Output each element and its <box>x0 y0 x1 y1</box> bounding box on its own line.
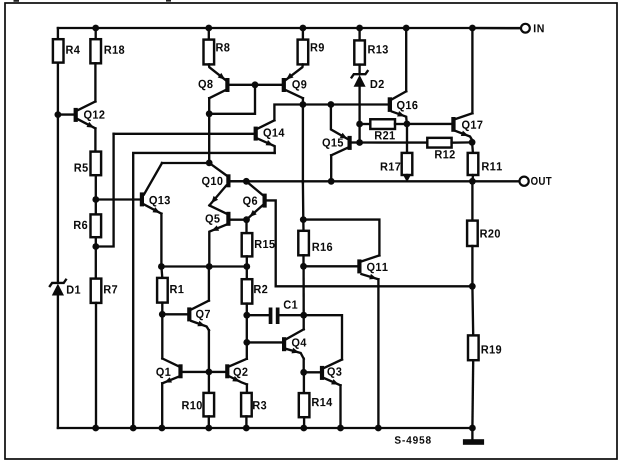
wire output sense rail (OUT) <box>231 180 520 182</box>
node ground rail end <box>469 425 476 432</box>
node Q2 collector / Q4 base <box>243 339 250 346</box>
wire Q7 emitter to Q1/Q2 base node <box>208 330 210 372</box>
resistor R4 <box>53 39 64 62</box>
transistor Q11 <box>357 259 361 273</box>
node Q12 base junction <box>55 111 62 118</box>
resistor R7 <box>91 279 102 303</box>
node ground rail R14 <box>300 425 307 432</box>
resistor R6 <box>91 214 102 237</box>
wire Q13 emitter drop to bias bus <box>160 214 162 267</box>
node ground rail R7 <box>92 425 99 432</box>
wire bias bus <box>161 265 246 267</box>
transistor Q9 (pnp) <box>282 78 286 92</box>
wire Q8 collector drop <box>208 98 210 163</box>
node mirror node <box>206 110 213 117</box>
node top rail R8 tap <box>205 25 212 32</box>
node top rail R9 tap <box>300 25 307 32</box>
transistor Q17 <box>451 117 455 132</box>
node R5/R6 divider tap <box>92 196 99 203</box>
resistor R20 <box>471 181 473 220</box>
resistor R3 <box>241 393 252 417</box>
transistor Q14 <box>254 127 258 141</box>
resistor R2 <box>246 267 248 280</box>
wire R4/D1 left column <box>57 28 59 283</box>
resistor R21 <box>360 123 371 125</box>
transistor Q13 <box>140 192 144 206</box>
wire Q9 collector node to Q16 base <box>303 103 388 105</box>
node Q11 collector / R16 top <box>300 216 307 223</box>
node ground rail R10 <box>205 425 212 432</box>
node Q15 base node <box>356 139 363 146</box>
node bias bus R15/R2 tap <box>243 263 250 270</box>
schematic id S-4958 <box>395 436 431 444</box>
transistor Q12 <box>74 108 78 122</box>
wire D2 to R21/Q15 node <box>358 87 360 143</box>
node top rail Q16 <box>403 25 410 32</box>
node R21 left tap <box>356 121 363 128</box>
node bias bus R1 tap <box>158 263 165 270</box>
cropped caption fragment top edge <box>14 0 20 2</box>
transistor Q6 <box>263 194 267 208</box>
wire Q13 collector to mirror column <box>162 162 209 164</box>
wire R2 to C1 node <box>246 304 248 316</box>
zener diode D1 <box>50 280 66 286</box>
transistor Q1 <box>178 364 182 378</box>
wire R1 to Q7 base node <box>161 303 163 315</box>
transistor Q3 <box>320 366 324 380</box>
wire R6 tap to Q14 base riser <box>96 134 114 247</box>
transistor Q10 <box>226 174 230 187</box>
wire Q14 collector to node <box>274 105 303 121</box>
wire top supply rail (IN) <box>58 27 521 29</box>
resistor R14 <box>303 372 305 393</box>
resistor R9 <box>302 28 304 40</box>
wire Q2 collector riser <box>246 342 248 358</box>
resistor R11 <box>471 142 474 153</box>
wire Q9 collector drop <box>302 98 304 104</box>
capacitor C1 <box>247 314 269 316</box>
wire feedback divider sense <box>276 285 473 287</box>
resistor R1 <box>160 267 163 278</box>
wire Q1 emitter to ground <box>161 383 163 428</box>
wire Q15 collector to sense rail <box>330 155 332 181</box>
node top rail Q17 <box>469 25 476 32</box>
wire Q3 collector loop to C1 node <box>304 315 342 359</box>
node R16 bottom / Q11 base <box>300 263 307 270</box>
node Q1/Q2 base R10 tap <box>206 369 213 376</box>
wire R17 to sense rail <box>406 175 408 178</box>
wire Q9 node down through sense rail <box>302 105 304 183</box>
wire Q1 collector riser <box>161 314 163 358</box>
resistor R5 <box>91 152 102 176</box>
node bias bus Q5/Q7 tap <box>206 263 213 270</box>
wire R5-R6 <box>95 175 97 214</box>
resistor R18 <box>95 28 97 39</box>
wire base tie to mirror node <box>209 85 255 114</box>
node sense rail Q6 collector <box>243 178 250 185</box>
transistor Q16 <box>388 97 392 112</box>
node Q3 base / R14 top <box>300 369 307 376</box>
wire Q4 emitter to Q3 base node <box>303 359 305 373</box>
node sense rail Q15 tap <box>328 178 335 185</box>
terminal IN <box>472 27 521 30</box>
node Q13 collector junction <box>206 160 213 167</box>
resistor R19 <box>471 286 474 335</box>
transistor Q8 (pnp) <box>225 78 229 92</box>
node sense rail R11/R20 <box>469 178 476 185</box>
node Q8/Q9 base tie <box>252 81 259 88</box>
wire R16 to Q11 base node <box>302 255 304 266</box>
wire R20 to divider tap <box>471 246 473 286</box>
terminal OUT <box>520 177 529 186</box>
node Q17 emitter / R12 right / R11 top <box>469 139 476 146</box>
resistor R8 <box>208 28 210 40</box>
transistor Q7 <box>187 307 191 321</box>
zener diode D2 <box>358 65 360 75</box>
wire R6-R7 <box>95 237 97 278</box>
node top rail R18 tap <box>92 25 99 32</box>
transistor Q15 (pnp) <box>348 136 352 150</box>
wire Q11 base node down to C1 node <box>302 266 304 315</box>
node top rail R13 tap <box>356 25 363 32</box>
wire Q16 collector to top rail <box>405 28 407 91</box>
node Q15 emitter tap <box>328 101 335 108</box>
wire Q12 emitter to R5 <box>94 128 96 151</box>
node divider tap R20/R19 <box>469 283 476 290</box>
node R2 bottom / C1 left <box>243 312 250 319</box>
node ground rail Q11 <box>375 425 382 432</box>
wire Q3 emitter to ground <box>339 385 341 428</box>
resistor R10 <box>208 372 210 393</box>
wire bottom ground rail <box>58 427 473 429</box>
transistor Q4 <box>282 337 286 351</box>
ground symbol <box>471 428 473 440</box>
wire Q11 collector loop to R16 top <box>303 220 379 256</box>
resistor R15 <box>245 220 247 233</box>
node ground rail R3 <box>243 425 250 432</box>
wire R15 to bias bus <box>246 256 248 266</box>
wire Q14 emitter rail to ground <box>133 153 275 428</box>
resistor R16 <box>302 220 305 231</box>
node Q9/Q14 collector node <box>300 101 307 108</box>
wire Q14 base <box>114 133 254 135</box>
wire Q7 collector to bias bus <box>208 267 210 301</box>
transistor Q2 <box>225 364 229 378</box>
resistor R17 <box>406 124 408 153</box>
wire R19 to ground rail <box>471 360 474 428</box>
wire R7 to ground rail <box>95 303 97 428</box>
wire Q2 emitter to R3 <box>246 384 248 393</box>
node C1 right / Q3 collector / Q4 collector <box>300 312 307 319</box>
transistor Q5 <box>226 212 230 226</box>
wire Q4 collector to C1 node <box>303 315 305 329</box>
node R1 bottom / Q7 base / Q1 collector <box>159 311 166 318</box>
node ground rail Q3 <box>337 425 344 432</box>
node Q5 base / Q6 emitter / R15 top <box>243 216 250 223</box>
node R6/R7 tap <box>92 243 99 250</box>
wire Q11 emitter to ground <box>377 279 379 428</box>
wire Q12 collector to R18 <box>94 63 96 101</box>
wire Q17 collector to top rail <box>471 28 473 113</box>
node ground rail Q1 <box>159 425 166 432</box>
resistor R13 <box>358 28 360 40</box>
node Q16 emitter / R21 right / Q17 base / R17 top <box>404 121 411 128</box>
node ground rail x=133 <box>130 425 137 432</box>
resistor R12 <box>360 141 428 143</box>
wire C1 node down to Q2 collector node <box>246 315 248 342</box>
